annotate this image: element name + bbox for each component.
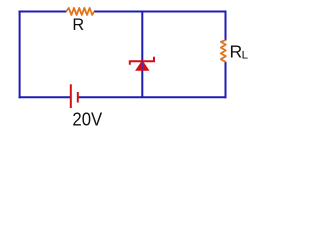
wire: top edge left segment <box>19 11 67 13</box>
wire: right edge upper segment <box>225 11 227 41</box>
wire: bottom edge right segment <box>79 96 227 98</box>
wire: top edge right segment <box>94 11 226 13</box>
wire: bottom edge left segment <box>19 96 70 98</box>
svg-text:20V: 20V <box>72 109 102 129</box>
svg-text:R: R <box>72 16 84 34</box>
resistor R (horizontal zigzag) <box>66 8 94 15</box>
wire: right edge lower segment <box>225 62 227 99</box>
svg-text:R: R <box>230 42 243 62</box>
zener diode D (anode triangle) <box>137 61 148 70</box>
wire: left edge <box>19 11 21 99</box>
wire: showing through zener triangle <box>141 63 143 70</box>
wire: middle branch vertical <box>141 12 143 98</box>
resistor RL (vertical zigzag) <box>221 40 226 62</box>
battery plate long (left, positive) <box>70 84 72 108</box>
battery plate short (right, negative) <box>77 92 79 103</box>
zener diode D (cathode bar with bent ends) <box>130 57 154 65</box>
svg-text:L: L <box>242 50 248 62</box>
